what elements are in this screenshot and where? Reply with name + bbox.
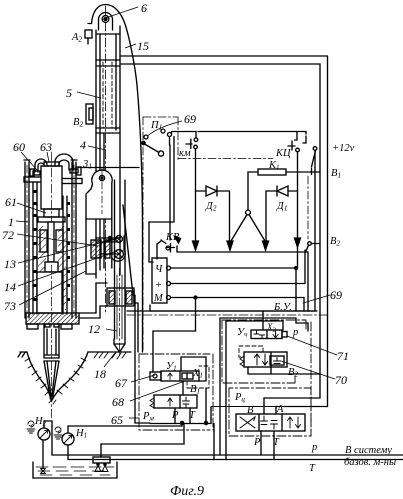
left nub with circle [150, 372, 161, 380]
svg-text:А2: А2 [71, 32, 82, 44]
svg-text:14: 14 [4, 280, 16, 294]
svg-text:5: 5 [66, 86, 72, 100]
BU box right edge [314, 151, 316, 312]
cylinder 5 inside mast [96, 59, 120, 61]
svg-text:В2: В2 [330, 236, 340, 248]
svg-text:6: 6 [141, 1, 147, 15]
mast centerline [105, 6, 107, 312]
svg-text:Д1: Д1 [276, 201, 287, 213]
P1 second wire down to box [149, 137, 174, 263]
svg-text:Рм: Рм [142, 411, 154, 423]
port square A2 [85, 30, 92, 38]
drill shaft [43, 324, 45, 358]
drain valve bowtie [41, 469, 46, 474]
rod tip [114, 339, 125, 352]
svg-text:В2: В2 [288, 367, 298, 379]
block 61 [44, 209, 59, 217]
svg-text:Уч: Уч [237, 327, 248, 339]
Rm dash-dot box [139, 354, 213, 430]
diode D2 [196, 190, 207, 192]
svg-text:В систему: В систему [345, 445, 392, 456]
leader 6 [107, 7, 138, 18]
left rail pair [24, 162, 26, 318]
svg-text:4: 4 [80, 138, 86, 152]
pump H2 [38, 428, 50, 440]
cable sloping [123, 205, 133, 295]
frame lines to right [127, 310, 317, 312]
dashed pilot box valve70 [239, 346, 263, 357]
svg-text:31: 31 [82, 159, 92, 171]
svg-text:Д2: Д2 [205, 201, 217, 213]
svg-text:60: 60 [13, 140, 25, 154]
terminal box Ч + M [152, 258, 167, 303]
svg-text:Р: Р [171, 410, 179, 421]
rod collar hatched [107, 288, 134, 306]
cylinder 60 [41, 166, 62, 209]
top bar [24, 177, 43, 182]
rod tip ground hatch [110, 352, 131, 359]
leader 12 [106, 329, 117, 331]
hatched guide blocks on mast [91, 240, 101, 258]
svg-text:А: А [276, 404, 284, 415]
svg-text:КВ: КВ [165, 232, 180, 243]
spring valve68 [150, 398, 154, 408]
nested wires from valve 71 to bottom [220, 318, 308, 455]
svg-text:68: 68 [112, 395, 124, 409]
ground pit [27, 352, 52, 401]
svg-text:69: 69 [184, 112, 196, 126]
mid cell closed [261, 416, 278, 429]
KB bus line [177, 246, 308, 311]
dash-dot right edge continuation [310, 322, 312, 436]
leader 14 [18, 251, 117, 286]
mast body [95, 30, 97, 278]
69 leader for BU [303, 295, 330, 303]
svg-text:Т: Т [309, 463, 316, 474]
svg-text:П1: П1 [150, 120, 162, 132]
motor symbol H1 [55, 427, 61, 433]
leader 68 [130, 381, 185, 401]
KM down wire to D2 [195, 149, 197, 241]
svg-text:Р: Р [253, 437, 261, 448]
resistor left to fan apex [248, 172, 258, 210]
P1-KC mech link dash-dot [178, 158, 273, 160]
wire M junction down to U1 valve [153, 298, 196, 373]
B and A risers [263, 398, 265, 414]
wire down from Ч bus junction [295, 268, 297, 311]
P1 to KM wire [172, 132, 197, 139]
leader 4 [88, 146, 106, 150]
bus wires from box [171, 267, 297, 269]
svg-text:73: 73 [4, 299, 16, 313]
svg-text:базов. м-ны: базов. м-ны [344, 457, 396, 468]
H2 discharge pipe [44, 421, 52, 455]
svg-text:12: 12 [88, 322, 100, 336]
svg-text:Фиг.9: Фиг.9 [170, 484, 204, 499]
Rc dash-dot box [229, 388, 311, 436]
KB switch [166, 246, 170, 250]
svg-text:Рц: Рц [234, 392, 245, 404]
leader 5 [77, 92, 101, 98]
right rail pair [71, 162, 73, 318]
svg-text:Т: Т [189, 410, 196, 421]
BU box bottom [150, 310, 315, 312]
svg-text:Х1: Х1 [192, 368, 203, 380]
leader 65 [129, 417, 139, 419]
71 leader [287, 336, 337, 355]
inner left rails [32, 182, 34, 314]
resistor right / B1 wire [286, 171, 320, 173]
X1 solid box [181, 357, 206, 381]
svg-text:Ч: Ч [155, 264, 163, 275]
svg-text:У1: У1 [166, 361, 177, 373]
svg-text:67: 67 [115, 376, 128, 390]
leader 61 [17, 203, 46, 213]
leader 67 [131, 375, 155, 382]
vertical from machine to Rm [134, 295, 136, 375]
svg-text:69: 69 [330, 288, 342, 302]
right cell arrows [288, 417, 293, 428]
fan [246, 210, 251, 215]
svg-text:70: 70 [335, 373, 347, 387]
svg-text:72: 72 [2, 228, 14, 242]
rod 12 [114, 180, 116, 339]
outer dash-dot box P [222, 320, 306, 383]
drill cone [44, 361, 51, 399]
bottom bus [150, 407, 211, 424]
mast head arch [92, 5, 143, 353]
mech link KC to B2 switch [307, 176, 309, 239]
top line to KC [198, 132, 306, 135]
cylinder 73 [45, 262, 58, 272]
pulley 6 [102, 16, 109, 23]
hatched guide strips [38, 226, 46, 310]
svg-text:Т: Т [273, 437, 280, 448]
svg-text:М: М [153, 293, 164, 304]
svg-text:В1: В1 [190, 384, 200, 396]
X1 box bottom down [205, 388, 207, 423]
leader 73 [19, 271, 86, 305]
KM contact [194, 138, 198, 142]
KC bar [288, 145, 295, 147]
mast cross lines [96, 237, 120, 239]
pit hatches left [25, 358, 86, 404]
svg-text:В1: В1 [331, 168, 341, 180]
B2 switch branch [304, 250, 306, 284]
U-pipe over cyl 60 [35, 159, 47, 172]
P1 wire down to KB [169, 137, 172, 241]
svg-text:Н1: Н1 [75, 428, 87, 440]
K1 resistor [258, 169, 286, 175]
P T down [260, 431, 262, 455]
dashed pilot box [187, 366, 209, 388]
left cell X arrows [240, 417, 255, 428]
tank [33, 462, 117, 478]
P1 switch box dash-dot [143, 116, 178, 118]
leader 72 [17, 234, 98, 246]
H1 discharge [68, 423, 182, 433]
valve 68 [154, 395, 197, 408]
svg-text:+12v: +12v [332, 143, 355, 154]
P1 contacts [144, 135, 148, 139]
svg-text:15: 15 [137, 39, 149, 53]
check valve box [93, 457, 110, 463]
port tab B2 [86, 104, 93, 124]
diode D1 [288, 190, 298, 192]
Rc valve body [236, 414, 305, 431]
svg-text:1: 1 [8, 215, 14, 229]
svg-text:В2: В2 [73, 117, 83, 129]
motor symbol H2 [28, 421, 34, 427]
bottom flange hatched [26, 313, 79, 324]
leader 15 [125, 44, 136, 48]
wire from BU to valve71 [262, 311, 264, 330]
U under valve70 [248, 367, 320, 374]
bracket 3_1 [78, 167, 139, 169]
svg-text:р: р [292, 327, 298, 338]
KC down wire [297, 152, 299, 239]
valve 67 U1 [161, 371, 199, 381]
svg-text:18: 18 [94, 367, 106, 381]
svg-text:13: 13 [4, 257, 16, 271]
svg-text:+: + [155, 280, 162, 291]
pulley 14 [115, 250, 124, 259]
P T risers down [174, 408, 176, 423]
bolts on rails [34, 190, 71, 301]
svg-text:Н2: Н2 [34, 416, 47, 428]
leader 63 [47, 152, 49, 162]
svg-text:71: 71 [337, 349, 349, 363]
svg-text:61: 61 [5, 195, 17, 209]
KC lever [312, 151, 316, 168]
svg-text:65: 65 [111, 413, 123, 427]
svg-text:К1: К1 [268, 160, 279, 172]
right feed verticals (+12v) [327, 56, 329, 407]
leader 1 [16, 221, 28, 222]
svg-text:р: р [311, 442, 317, 453]
frame plate right of machine [79, 306, 107, 318]
pulley 13 [116, 236, 123, 243]
leader 13 [18, 239, 116, 263]
spring valve70 [240, 356, 244, 367]
feed wires from mast top [121, 55, 327, 57]
70 leader [281, 361, 335, 379]
inner right rails [62, 196, 64, 314]
H2 suction down to tank [42, 440, 44, 468]
connection valve67 to valve68 [182, 381, 184, 395]
valve 70 [244, 352, 287, 367]
leader 60 [21, 152, 37, 170]
arrows onto bus [193, 238, 301, 250]
svg-text:63: 63 [40, 140, 52, 154]
ground line left stub [20, 351, 27, 353]
U-pipe over cyl 63 [55, 154, 73, 170]
ground line right of pit [88, 351, 131, 353]
pump H1 [62, 433, 74, 445]
leader 18 [104, 353, 115, 367]
valve 71 [251, 330, 282, 339]
svg-text:В: В [247, 405, 254, 416]
69 leader curve [148, 121, 182, 136]
link bars [101, 238, 119, 243]
svg-text:км: км [179, 148, 191, 159]
svg-text:Х2: Х2 [266, 322, 277, 334]
wire M bus to right [303, 298, 305, 312]
H1 down [67, 445, 69, 460]
long P T lines [52, 454, 403, 456]
svg-text:КЦ: КЦ [275, 148, 292, 159]
KC contact prongs [295, 133, 298, 140]
riser from check box [101, 424, 184, 457]
svg-text:Б.У.: Б.У. [273, 302, 292, 313]
